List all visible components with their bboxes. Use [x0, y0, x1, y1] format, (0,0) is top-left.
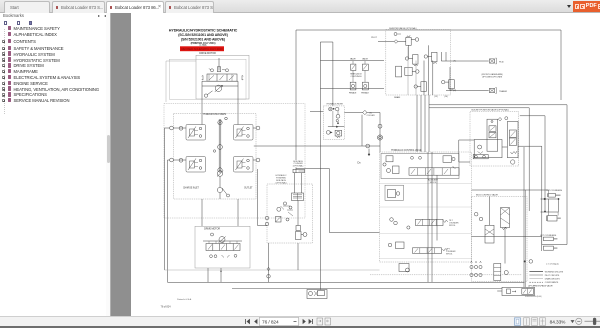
svg-text:FEMALE: FEMALE [361, 91, 369, 94]
svg-text:SPOOL: SPOOL [430, 182, 438, 184]
svg-text:HYDRAULIC/HYDROSTATIC SCHEMATI: HYDRAULIC/HYDROSTATIC SCHEMATIC [169, 29, 238, 33]
svg-text:(16): (16) [444, 96, 448, 98]
svg-text:HYDRAULIC CONTROL VALVE: HYDRAULIC CONTROL VALVE [391, 149, 422, 152]
svg-text:(FRONT LOADER ARM): (FRONT LOADER ARM) [482, 73, 503, 76]
svg-text:LIFT LINES LIFT LINES: LIFT LINES LIFT LINES [482, 77, 503, 79]
svg-text:DRIVE MOTOR: DRIVE MOTOR [204, 227, 220, 230]
svg-text:SPOOL: SPOOL [449, 225, 456, 227]
svg-text:DIVERTER VALVE (OPTIONAL): DIVERTER VALVE (OPTIONAL) [389, 27, 417, 30]
svg-text:COOLER: COOLER [367, 115, 376, 117]
svg-text:DRIVE MOTOR: DRIVE MOTOR [199, 52, 216, 55]
svg-text:OUTLET: OUTLET [244, 188, 253, 190]
svg-text:REAR QUICK: REAR QUICK [350, 72, 362, 75]
svg-text:(15): (15) [434, 96, 438, 98]
svg-text:TRAILER: TRAILER [499, 90, 508, 93]
svg-text:BUCKET POSITION VALVE (OPTIONA: BUCKET POSITION VALVE (OPTIONAL) [472, 109, 510, 112]
svg-text:(S/N 52021001 AND ABOVE): (S/N 52021001 AND ABOVE) [181, 37, 225, 41]
svg-text:76 / 824: 76 / 824 [262, 319, 279, 325]
svg-text:4-80083-6900 (8-00): 4-80083-6900 (8-00) [525, 296, 542, 298]
svg-text:VALVE: VALVE [362, 58, 368, 61]
svg-text:(OPTIONAL): (OPTIONAL) [293, 165, 304, 168]
svg-text:FEMALE: FEMALE [349, 91, 357, 94]
svg-text:PILOT CIRCUITS: PILOT CIRCUITS [545, 275, 560, 277]
svg-text:SPOOL: SPOOL [446, 254, 453, 256]
svg-text:BICS CONTROL VALVE: BICS CONTROL VALVE [476, 194, 499, 197]
svg-text:TILT CYLINDERS: TILT CYLINDERS [546, 190, 563, 192]
svg-text:VALVE: VALVE [350, 58, 356, 61]
svg-text:COMPONENTS: COMPONENTS [545, 282, 559, 284]
svg-text:Dx: Dx [357, 161, 361, 165]
svg-text:HYDRAULIC FILTER: HYDRAULIC FILTER [327, 103, 344, 106]
svg-text:Printed in U.S.A.: Printed in U.S.A. [177, 298, 192, 301]
svg-text:▸ # of Outputs: ▸ # of Outputs [547, 263, 560, 266]
svg-text:HYDROSTATIC PUMPS: HYDROSTATIC PUMPS [203, 113, 227, 116]
svg-text:DRAIN CIRCUITS: DRAIN CIRCUITS [545, 277, 561, 280]
svg-text:WORKING CIRCUITS: WORKING CIRCUITS [545, 271, 564, 273]
svg-text:REVISED SCHEMATIC JULY 2010: REVISED SCHEMATIC JULY 2010 [182, 47, 224, 51]
svg-text:76 of 824: 76 of 824 [161, 304, 172, 308]
svg-text:84.33%: 84.33% [550, 320, 567, 326]
svg-text:P140: P140 [499, 62, 504, 64]
svg-text:DRAIN: DRAIN [394, 96, 401, 99]
svg-text:CHARGE INLET: CHARGE INLET [183, 187, 199, 190]
svg-text:PILOT: PILOT [371, 37, 378, 39]
svg-text:COUPLINGS: COUPLINGS [351, 76, 363, 78]
svg-text:LIFT ARM BY-PASS VALVE: LIFT ARM BY-PASS VALVE [528, 284, 553, 287]
